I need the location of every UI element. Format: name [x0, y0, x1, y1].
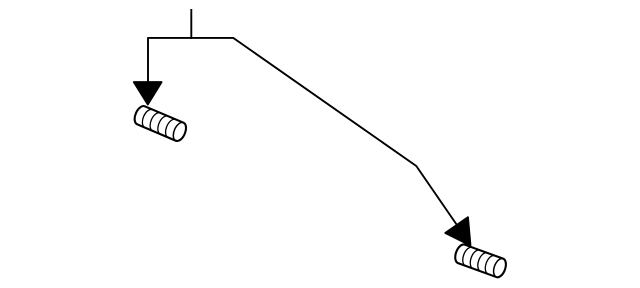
- arrow A1: [134, 82, 162, 104]
- wire: leader polyline: [148, 38, 470, 244]
- wire: callout tick: [190, 9, 192, 39]
- arrow A2: [445, 217, 470, 245]
- part: ribbed grommet P2: [453, 243, 508, 279]
- part: ribbed grommet P1: [132, 104, 188, 143]
